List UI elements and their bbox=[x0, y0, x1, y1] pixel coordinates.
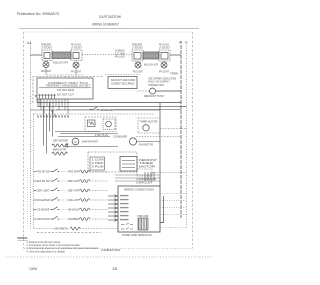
wire mid links bbox=[60, 133, 118, 135]
wire group2 to N bbox=[170, 54, 181, 56]
svg-text:CONNECTION: CONNECTION bbox=[148, 83, 164, 87]
thermistor zigzag bbox=[67, 143, 69, 148]
svg-text:DEF BIMETAL: DEF BIMETAL bbox=[55, 227, 69, 231]
lamp fresh food light 2 bbox=[161, 62, 167, 68]
wire bus 3 bbox=[31, 109, 161, 111]
wire bus 2 bbox=[37, 105, 187, 107]
control box terminal pin dots bbox=[39, 94, 56, 96]
svg-text:EVAP FAN MTR: EVAP FAN MTR bbox=[82, 140, 98, 144]
svg-text:1 COM: 1 COM bbox=[92, 158, 105, 162]
svg-text:DAMPER: DAMPER bbox=[68, 217, 79, 221]
frame left edge bbox=[23, 32, 25, 249]
svg-text:LT SOCKET: LT SOCKET bbox=[71, 45, 82, 49]
svg-text:N: N bbox=[180, 41, 183, 45]
switch row 2: REF DR SW bbox=[34, 178, 109, 183]
svg-text:TIMER MOTOR: TIMER MOTOR bbox=[140, 119, 158, 123]
console dashed enclosure bbox=[33, 77, 103, 104]
second rail bbox=[33, 114, 35, 229]
wire N bus vertical bbox=[180, 45, 182, 218]
heater bias coil bbox=[52, 152, 67, 155]
wire bundle drop bbox=[145, 172, 154, 181]
svg-text:18: 18 bbox=[112, 267, 117, 271]
heater mullion 1 hatched bbox=[52, 52, 71, 64]
svg-text:2 DEF: 2 DEF bbox=[92, 161, 105, 165]
svg-text:DEF HTR: DEF HTR bbox=[68, 189, 79, 193]
terminal board row labels bbox=[120, 195, 129, 220]
control box terminal pins bbox=[40, 95, 55, 100]
run capacitor box bbox=[103, 119, 115, 130]
timer motor component bbox=[137, 169, 152, 176]
lamp freezer light 2 bbox=[135, 62, 141, 68]
wire timer motor to ground bus bbox=[160, 128, 187, 130]
wire evap row bbox=[55, 131, 100, 133]
svg-text:REF DR SW: REF DR SW bbox=[37, 179, 50, 183]
terminal pin labels bbox=[37, 115, 68, 117]
frame right edge bbox=[192, 32, 194, 249]
svg-text:FRZ DR SW: FRZ DR SW bbox=[37, 170, 50, 174]
svg-text:4. See tech data sheet for det: 4. See tech data sheet for details. bbox=[27, 249, 66, 253]
wire junction drops bbox=[52, 110, 55, 117]
svg-text:F: F bbox=[35, 94, 37, 98]
svg-text:MULL HTR: MULL HTR bbox=[68, 198, 79, 202]
heater mullion 2 hatched bbox=[143, 52, 159, 66]
thermostat sub box bbox=[90, 157, 105, 170]
switch row 5: ICE MAKER bbox=[34, 207, 109, 212]
timer inner box bbox=[120, 157, 137, 172]
motor evap fan bbox=[72, 138, 79, 145]
terminal grid verticals bbox=[38, 99, 68, 114]
defrost thermostat bbox=[150, 88, 156, 94]
lamp freezer light bbox=[43, 62, 49, 68]
wire timer to ground bus bbox=[152, 172, 187, 174]
svg-text:L1: L1 bbox=[28, 41, 32, 45]
wire bus 4 dashed bbox=[34, 113, 156, 115]
bottom cut line bbox=[6, 256, 213, 258]
terminal board dotted outputs bbox=[160, 194, 187, 215]
terminal contacts bbox=[121, 223, 133, 229]
frame bottom edge bbox=[24, 248, 193, 250]
svg-text:G: G bbox=[185, 41, 188, 45]
light socket 3 box bbox=[132, 50, 143, 61]
wire group1 to group2 bbox=[82, 54, 132, 56]
power cord hatched component bbox=[138, 218, 148, 230]
svg-text:3 RUN: 3 RUN bbox=[92, 165, 104, 169]
lamp fresh food light bbox=[73, 62, 79, 68]
svg-text:MULLION HTR: MULLION HTR bbox=[53, 60, 69, 64]
wire door switch out bbox=[114, 109, 181, 111]
warning box bbox=[108, 77, 137, 89]
terminal board box bbox=[118, 186, 160, 232]
svg-text:PLUG: PLUG bbox=[115, 55, 125, 59]
wire condenser fan to N bbox=[137, 141, 160, 143]
svg-text:AIR DOOR: AIR DOOR bbox=[37, 217, 50, 221]
wire ground bus vertical bbox=[186, 45, 188, 228]
wire block out solid bbox=[160, 196, 164, 223]
wire bus bends bbox=[37, 99, 40, 106]
heater defrost coil bbox=[52, 144, 67, 147]
adaptive defrost dashed box bbox=[85, 117, 116, 132]
wire thermostat to N bbox=[156, 90, 182, 92]
switch row 3: DEF LIMIT bbox=[34, 188, 109, 193]
wire lamp return dashed bbox=[105, 74, 140, 76]
svg-text:PROPERLY GROUNDED OUTLET: PROPERLY GROUNDED OUTLET bbox=[46, 84, 90, 88]
wire warning box to thermostat bbox=[137, 90, 150, 92]
wire L1 bus vertical bbox=[30, 46, 32, 229]
svg-text:10/06: 10/06 bbox=[29, 267, 37, 271]
svg-text:IM MOLD: IM MOLD bbox=[68, 208, 79, 212]
control box U1 bbox=[37, 78, 93, 99]
svg-text:FF LIGHT: FF LIGHT bbox=[159, 69, 169, 73]
switch row 4: DR HEATER bbox=[34, 197, 109, 202]
svg-text:DO NOT CUT: DO NOT CUT bbox=[57, 93, 74, 97]
svg-text:FRZ LIGHT: FRZ LIGHT bbox=[133, 69, 143, 73]
frame top edge bbox=[24, 31, 193, 33]
svg-text:POWER CORD TERM BLOCK: POWER CORD TERM BLOCK bbox=[122, 233, 152, 237]
svg-text:M: M bbox=[74, 140, 77, 144]
left rail dotted bbox=[27, 168, 29, 229]
svg-text:DOOR SW: DOOR SW bbox=[101, 108, 114, 112]
svg-text:LT SOCKET: LT SOCKET bbox=[132, 45, 143, 49]
svg-text:WIRING CONNECTIONS: WIRING CONNECTIONS bbox=[124, 188, 154, 192]
terminal board pins left bbox=[108, 195, 118, 222]
motor compressor bbox=[106, 121, 112, 127]
defrost timer dashed box bbox=[88, 152, 137, 172]
wire bundle horizontals bbox=[115, 175, 160, 181]
switch row 7: defrost bimetal bbox=[34, 227, 119, 231]
svg-text:LT SOCKET: LT SOCKET bbox=[159, 45, 170, 49]
fresh food light socket box bbox=[71, 50, 82, 61]
svg-text:PWR CORD: PWR CORD bbox=[138, 216, 149, 218]
wire riser bundle bbox=[44, 103, 53, 154]
svg-text:FRZ FAN: FRZ FAN bbox=[68, 170, 79, 174]
wire drop to control right bbox=[159, 103, 161, 186]
switch row 1: FRZ DR SW bbox=[34, 169, 109, 174]
svg-text:115 VAC 60HZ: 115 VAC 60HZ bbox=[57, 88, 74, 92]
svg-text:DEF LIMIT: DEF LIMIT bbox=[37, 189, 50, 193]
svg-text:LT SOCKET: LT SOCKET bbox=[41, 45, 52, 49]
svg-text:GLRT183TDW: GLRT183TDW bbox=[99, 15, 122, 19]
motor condenser fan bbox=[129, 138, 136, 145]
overload protector bbox=[88, 120, 96, 127]
svg-text:SCREW SECURELY: SCREW SECURELY bbox=[111, 82, 135, 86]
svg-text:ICE MAKER: ICE MAKER bbox=[37, 208, 50, 212]
header rule bbox=[19, 28, 199, 30]
svg-text:BIAS HTR: BIAS HTR bbox=[53, 147, 66, 151]
svg-text:242B4P403: 242B4P403 bbox=[101, 248, 120, 252]
light socket 4 box bbox=[159, 50, 170, 61]
svg-text:DEFROST TSTAT: DEFROST TSTAT bbox=[144, 94, 164, 98]
wire evap out bbox=[65, 146, 118, 148]
switch row 6: AIR DOOR bbox=[34, 216, 109, 221]
svg-text:REF FAN: REF FAN bbox=[68, 179, 79, 183]
svg-text:Publication No. 5995A973: Publication No. 5995A973 bbox=[17, 12, 59, 16]
svg-text:MOTOR: MOTOR bbox=[139, 165, 155, 169]
svg-text:WIRING SCHEMATIC: WIRING SCHEMATIC bbox=[92, 23, 119, 27]
wire block out dotted bbox=[160, 227, 187, 229]
wire bottom return left bbox=[37, 232, 101, 234]
svg-text:MULLION HTR: MULLION HTR bbox=[144, 62, 159, 66]
defrost timer motor dashed box bbox=[138, 118, 160, 133]
wire L1 to freezer light bbox=[31, 54, 43, 56]
wire to door switch bbox=[56, 109, 90, 111]
wire lamp return left group bbox=[47, 74, 84, 76]
freezer light socket box bbox=[42, 50, 52, 61]
svg-text:CONDENSER: CONDENSER bbox=[113, 134, 127, 138]
wire bus 1 bbox=[37, 102, 181, 104]
svg-text:FAN MOTOR: FAN MOTOR bbox=[139, 142, 153, 146]
switch door bbox=[90, 107, 99, 110]
motor timer bbox=[143, 125, 149, 131]
svg-text:DEF HEATER: DEF HEATER bbox=[53, 139, 68, 143]
svg-text:TERM: TERM bbox=[170, 72, 179, 76]
svg-text:DR HEATER: DR HEATER bbox=[37, 198, 50, 202]
